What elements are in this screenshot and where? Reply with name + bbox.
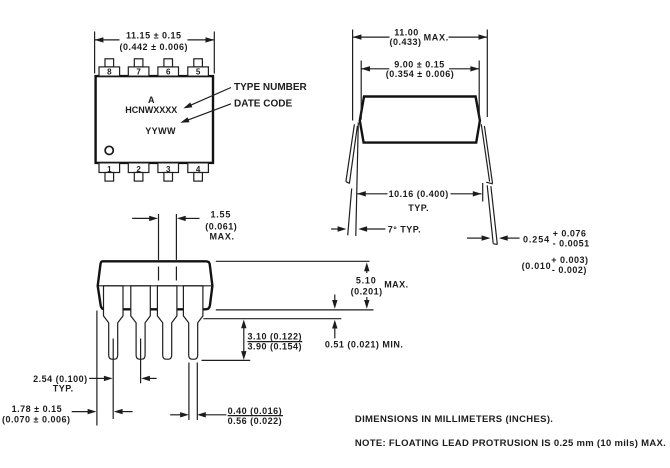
extension line lead1 center	[112, 339, 114, 420]
top-view pin 4	[188, 163, 209, 173]
extension line lead2 center	[140, 339, 142, 384]
top view package body	[96, 76, 213, 163]
svg-text:3: 3	[166, 165, 171, 174]
svg-text:TYP.: TYP.	[53, 384, 74, 394]
svg-text:2.54 (0.100): 2.54 (0.100)	[33, 374, 88, 384]
svg-text:+ 0.003): + 0.003)	[551, 255, 588, 265]
dim 9.00 line and arrows	[361, 68, 389, 70]
svg-text:1: 1	[107, 165, 112, 174]
dim 7deg arrows	[331, 228, 338, 230]
top-view pin 8	[105, 59, 114, 67]
dim 0.254 arrows	[467, 237, 482, 239]
svg-text:2: 2	[136, 165, 141, 174]
svg-text:- 0.0051: - 0.0051	[553, 239, 590, 249]
svg-text:7° TYP.: 7° TYP.	[388, 224, 421, 234]
svg-text:0.51 (0.021) MIN.: 0.51 (0.021) MIN.	[325, 339, 404, 349]
top-view pin 5	[194, 59, 203, 67]
dim 5.10 arrows	[366, 269, 368, 274]
dim 0.40-0.56 arrows	[170, 414, 180, 416]
svg-text:11.00: 11.00	[394, 27, 419, 37]
extension line body left edge	[96, 311, 98, 426]
svg-text:8: 8	[107, 67, 112, 76]
svg-text:7: 7	[136, 67, 141, 76]
dim 1.78 arrows	[72, 411, 89, 413]
top-view pin 1	[99, 163, 120, 173]
end-view left lead wide portion	[346, 124, 355, 181]
dim 0.51 arrows	[334, 295, 336, 303]
pin 1 indicator dot	[105, 146, 113, 154]
dim 11.15 extension lines	[94, 32, 96, 74]
dim 10.16 line and arrows	[357, 193, 388, 195]
svg-text:DIMENSIONS IN MILLIMETERS (INC: DIMENSIONS IN MILLIMETERS (INCHES).	[355, 414, 553, 425]
svg-text:TYPE NUMBER: TYPE NUMBER	[234, 82, 308, 93]
dim 11.15 arrows and line	[95, 39, 120, 41]
dim 3.10-3.90 arrows	[243, 326, 245, 353]
svg-text:0.40 (0.016): 0.40 (0.016)	[228, 406, 283, 416]
svg-text:NOTE: FLOATING LEAD PROTRUSION: NOTE: FLOATING LEAD PROTRUSION IS 0.25 m…	[355, 438, 666, 449]
svg-text:0.254: 0.254	[523, 235, 550, 245]
svg-text:YYWW: YYWW	[145, 126, 176, 136]
svg-text:1.78 ± 0.15: 1.78 ± 0.15	[12, 404, 62, 414]
projection line body bottom	[216, 309, 374, 311]
svg-text:3.90 (0.154): 3.90 (0.154)	[248, 342, 303, 352]
front view parting seam line	[98, 285, 213, 287]
front-view lead 2	[131, 286, 151, 359]
leader arrow to type number	[190, 88, 232, 106]
end-view left lead narrow tip	[348, 189, 352, 236]
svg-text:11.15 ± 0.15: 11.15 ± 0.15	[126, 31, 181, 41]
leader arrow to date code	[187, 104, 231, 121]
dim 9.00 extension lines	[360, 61, 362, 120]
svg-text:(0.354 ± 0.006): (0.354 ± 0.006)	[386, 69, 454, 79]
dim 10.16 extension line right	[482, 183, 484, 202]
svg-text:MAX.: MAX.	[384, 280, 409, 290]
dim 11.00 line and arrows	[353, 36, 390, 38]
svg-text:10.16 (0.400): 10.16 (0.400)	[389, 189, 449, 199]
svg-text:(0.442 ± 0.006): (0.442 ± 0.006)	[120, 42, 188, 52]
svg-text:5: 5	[196, 67, 201, 76]
svg-text:6: 6	[166, 67, 171, 76]
front view body	[98, 261, 213, 309]
top-view pin 2	[128, 163, 149, 173]
svg-text:3.10 (0.122): 3.10 (0.122)	[248, 332, 303, 342]
svg-text:0.56 (0.022): 0.56 (0.022)	[228, 416, 283, 426]
front-view lead 1	[104, 286, 124, 359]
end view body	[360, 97, 480, 143]
svg-text:MAX.: MAX.	[209, 232, 234, 242]
svg-text:HCNWXXXX: HCNWXXXX	[125, 105, 177, 115]
svg-text:(0.070 ± 0.006): (0.070 ± 0.006)	[2, 415, 70, 425]
svg-text:(0.201): (0.201)	[351, 286, 383, 296]
dim 2.54 arrows	[89, 377, 104, 379]
extension lines lead4 sides	[188, 363, 190, 421]
top-view pin 3	[158, 163, 179, 173]
svg-text:(0.010: (0.010	[522, 261, 552, 271]
front-view lead 4	[183, 286, 203, 359]
front-view lead 3	[157, 286, 177, 359]
dim 1.55 arrows	[132, 217, 149, 219]
svg-text:A: A	[148, 95, 155, 105]
svg-text:(0.433): (0.433)	[389, 37, 421, 47]
top-view pin 6	[164, 59, 173, 67]
projection line standoff	[203, 318, 341, 320]
svg-text:TYP.: TYP.	[408, 203, 429, 213]
svg-text:- 0.002): - 0.002)	[552, 265, 587, 275]
dim 1.55 extension lines	[158, 214, 160, 260]
svg-text:5.10: 5.10	[356, 276, 377, 286]
svg-text:MAX.: MAX.	[424, 32, 449, 42]
end-view right lead wide portion	[481, 124, 489, 181]
svg-text:+ 0.076: + 0.076	[553, 228, 587, 238]
projection line lead tip	[202, 359, 251, 361]
svg-text:4: 4	[196, 165, 201, 174]
svg-text:DATE CODE: DATE CODE	[234, 98, 292, 109]
end-view left lead back edge	[356, 123, 359, 237]
top-view pin 7	[134, 59, 143, 67]
dim 11.00 extension lines	[352, 30, 354, 121]
svg-text:(0.061): (0.061)	[205, 222, 237, 232]
end-view right lead narrow tip	[487, 185, 493, 243]
projection line body top	[216, 260, 370, 262]
svg-text:1.55: 1.55	[210, 209, 231, 219]
